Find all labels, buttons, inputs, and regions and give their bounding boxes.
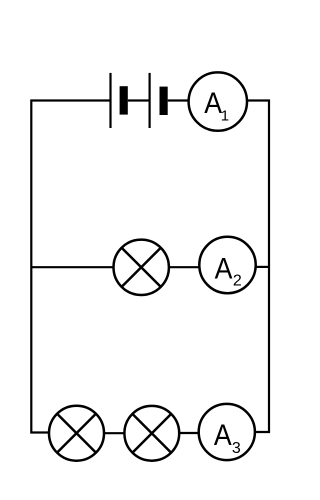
wire left side loop (top-left corner down to bottom branch) <box>31 101 110 433</box>
wire lamp L2 to lamp L3 <box>103 432 126 434</box>
lamp L3 circle <box>124 406 179 461</box>
lamp L1 cross <box>122 248 161 287</box>
wire lamp L1 to A2 <box>167 266 202 268</box>
lamp L1 circle <box>114 240 169 295</box>
svg-text:2: 2 <box>233 273 242 290</box>
svg-text:3: 3 <box>232 440 241 457</box>
lamp L3 cross <box>132 414 171 453</box>
wire left to middle lamp <box>31 266 116 268</box>
battery cell 2 long plate <box>149 73 151 128</box>
lamp L2 circle <box>49 406 104 461</box>
svg-text:1: 1 <box>221 108 229 125</box>
wire A2 to right wire <box>254 266 269 268</box>
ammeter A3 <box>199 404 255 460</box>
battery cell 1 short plate <box>120 86 128 114</box>
svg-text:A: A <box>204 86 222 120</box>
battery cell 2 short plate <box>160 87 168 115</box>
svg-text:A: A <box>215 252 233 286</box>
lamp L2 cross <box>57 414 96 453</box>
wire right side loop (A1 to top-right corner down to A3) <box>246 101 270 433</box>
ammeter A2 <box>199 237 255 293</box>
battery cell 1 long plate <box>109 73 111 128</box>
wire battery to A1 <box>168 99 191 101</box>
svg-text:A: A <box>214 419 232 453</box>
wire between battery cells <box>128 99 150 101</box>
wire lamp L3 to A3 <box>178 432 200 434</box>
ammeter A1 <box>189 72 247 130</box>
